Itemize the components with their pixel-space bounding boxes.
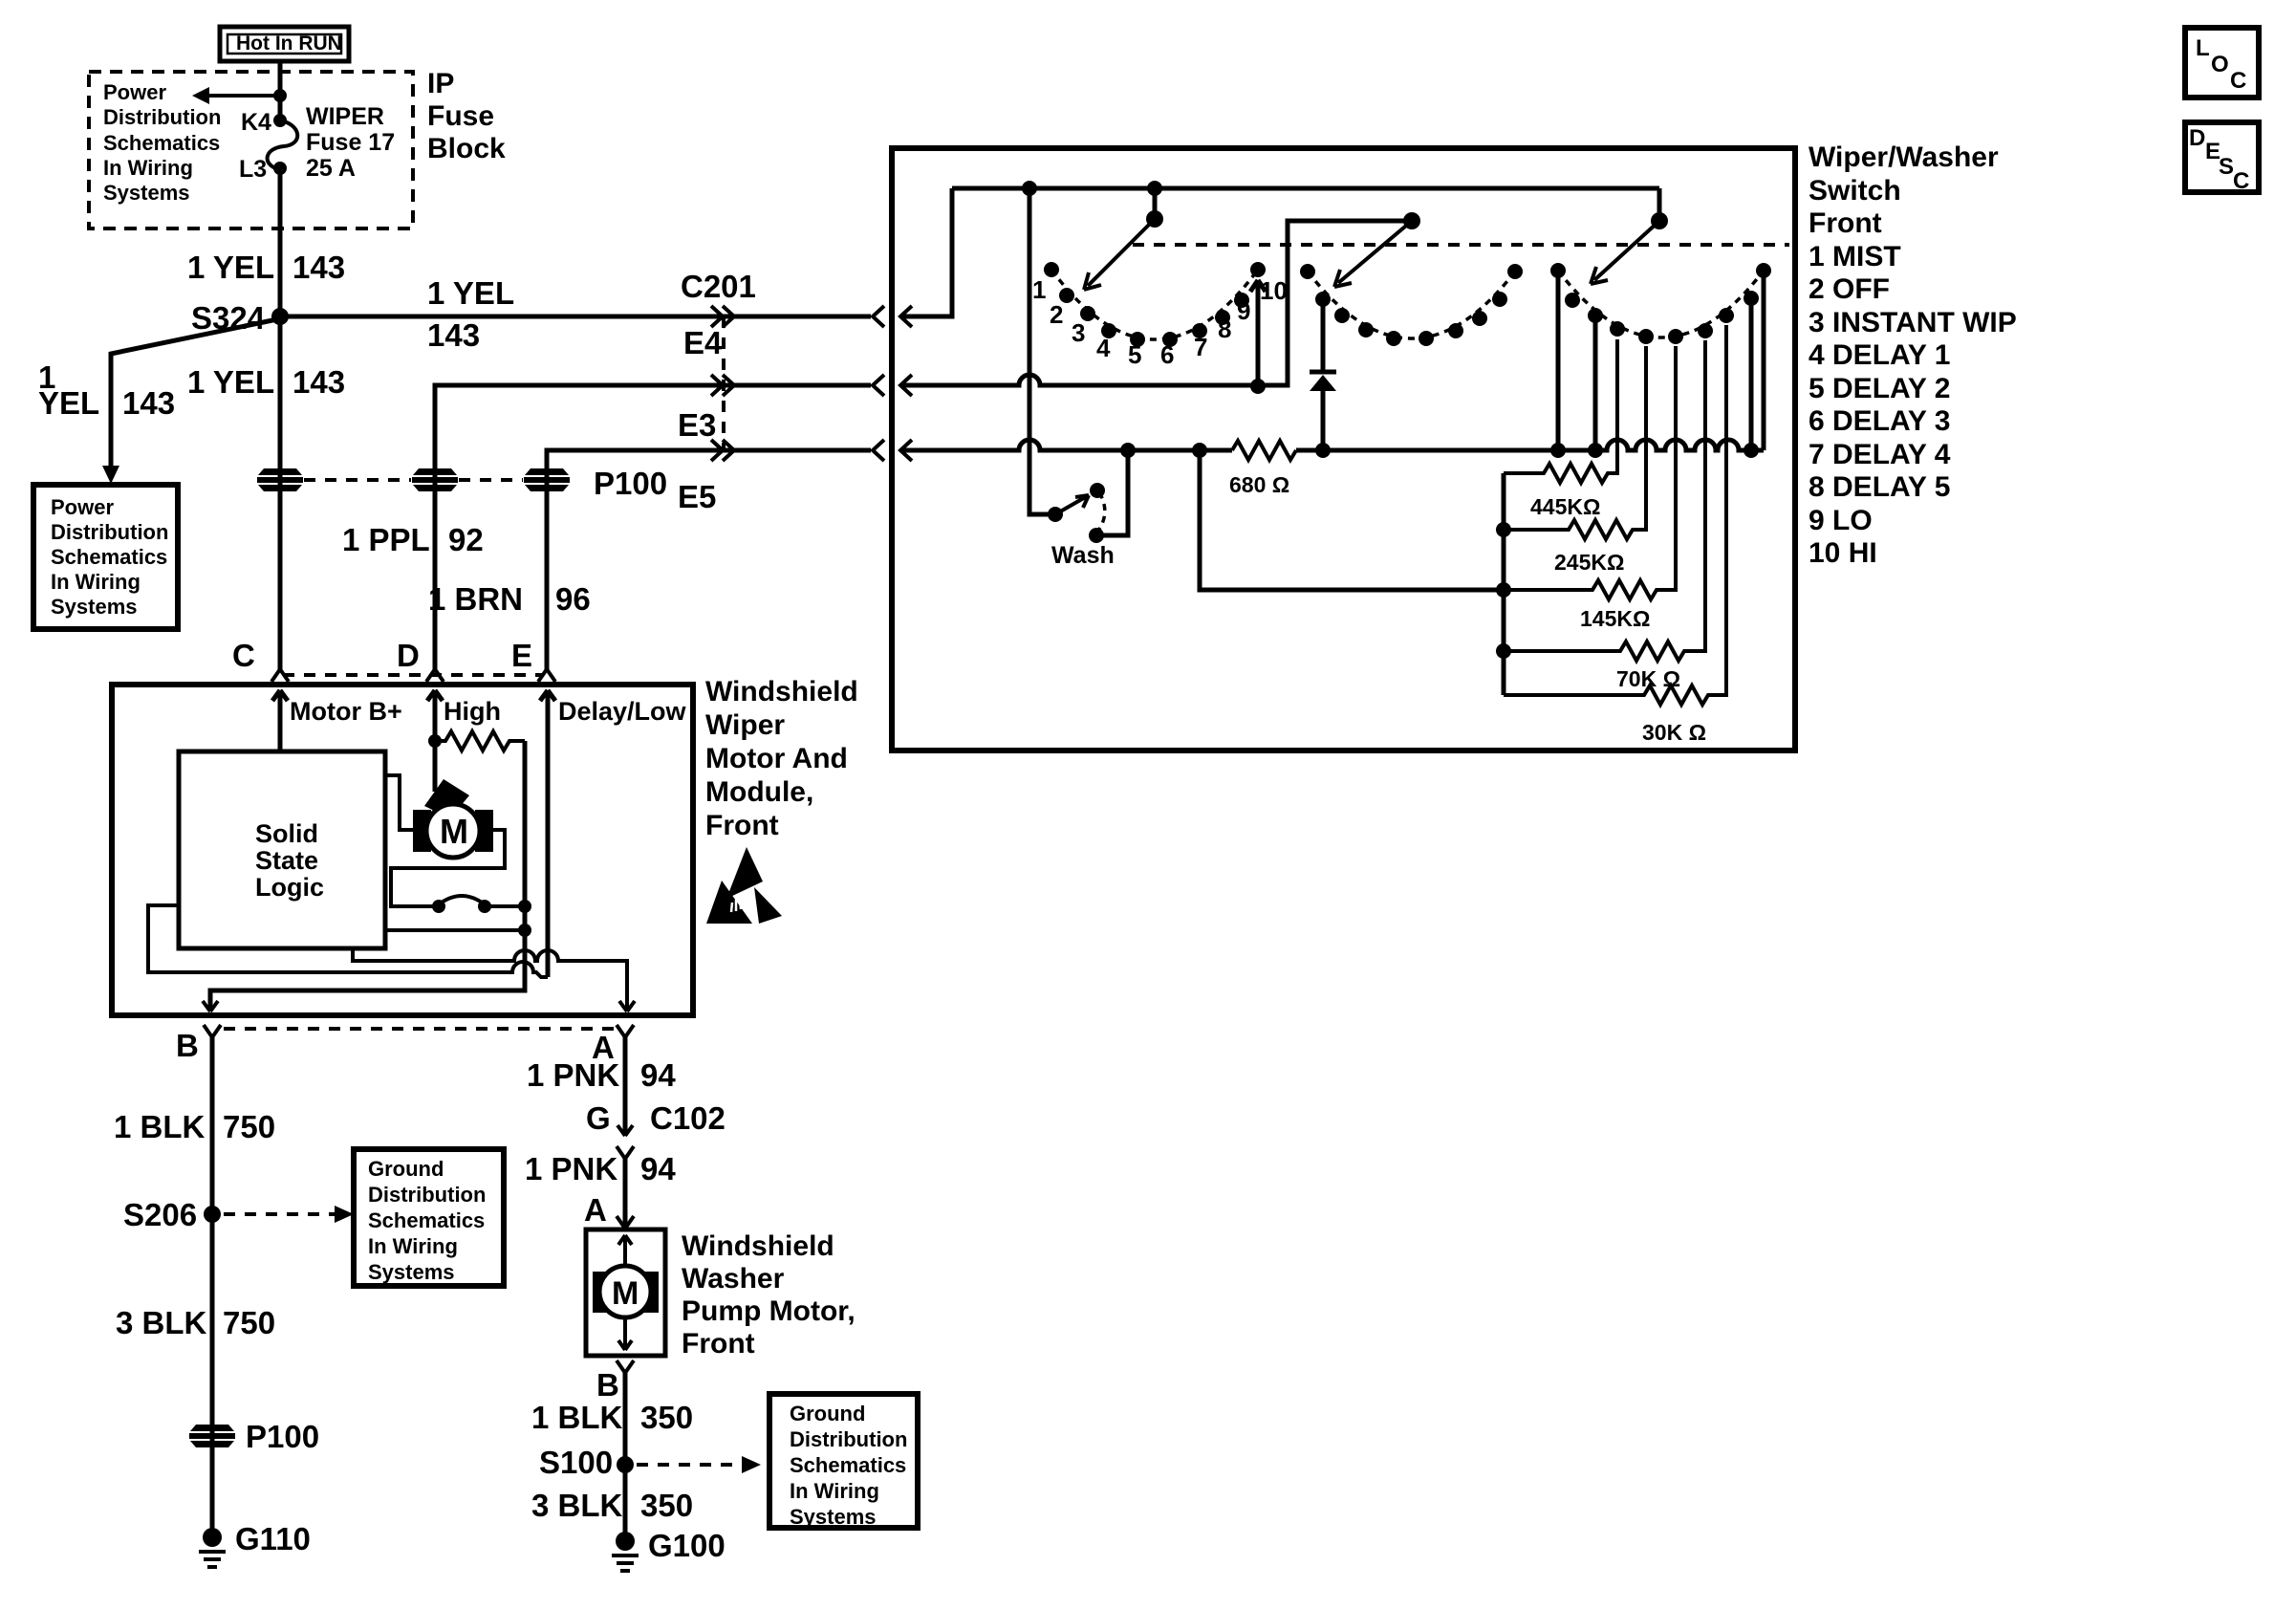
svg-text:145KΩ: 145KΩ <box>1580 606 1650 631</box>
svg-text:1 BRN: 1 BRN <box>428 581 523 617</box>
wire SSL left to Delay/Low return <box>148 905 548 977</box>
resistor (high speed dropping) <box>435 731 525 751</box>
wash feed vertical wire <box>1029 188 1055 514</box>
IP Fuse Block dashed box <box>89 72 413 228</box>
female connector pump B <box>617 1360 634 1373</box>
junction dot bus 70K <box>1496 643 1511 659</box>
svg-text:350: 350 <box>640 1400 693 1435</box>
svg-text:Solid: Solid <box>255 819 318 848</box>
ESD warning symbol <box>706 847 782 924</box>
svg-text:8 DELAY 5: 8 DELAY 5 <box>1809 471 1950 503</box>
Hot In RUN box <box>220 27 349 61</box>
dashed connector line C-D-E <box>283 673 544 677</box>
arc 1 contact numbers <box>1032 275 1288 369</box>
pin Motor B+ arrow <box>272 690 288 751</box>
Ground Distribution Schematics box (right) <box>769 1394 918 1529</box>
wire fuse L3 down to S324 <box>278 168 283 316</box>
wire ladder feed <box>1200 450 1504 590</box>
svg-text:A: A <box>584 1192 607 1228</box>
E3 row wire inside box <box>900 221 1412 385</box>
svg-text:E3: E3 <box>678 407 716 443</box>
wire pump B to S100 <box>623 1373 628 1465</box>
top bus wire <box>952 186 1659 191</box>
node S324 <box>271 308 289 325</box>
svg-text:Wiper: Wiper <box>705 709 785 741</box>
svg-text:Pump Motor,: Pump Motor, <box>682 1295 856 1327</box>
svg-text:7 DELAY 4: 7 DELAY 4 <box>1809 439 1951 470</box>
Power Distribution Schematics In Wiring Systems box <box>33 485 178 629</box>
svg-text:In Wiring: In Wiring <box>368 1234 458 1258</box>
svg-text:Ground: Ground <box>368 1157 444 1181</box>
female connector row E4 at switch box <box>873 306 912 327</box>
svg-text:Systems: Systems <box>51 595 138 619</box>
wire arc3 contact 9 to E5 bus <box>1749 298 1754 450</box>
svg-text:Distribution: Distribution <box>790 1427 907 1451</box>
svg-text:5 DELAY 2: 5 DELAY 2 <box>1809 373 1950 404</box>
wire D riser to connector row E3 <box>435 385 871 669</box>
svg-text:G: G <box>586 1100 611 1136</box>
svg-text:Systems: Systems <box>368 1260 455 1284</box>
svg-text:10 HI: 10 HI <box>1809 537 1877 569</box>
svg-text:E4: E4 <box>683 325 723 360</box>
dashed reference arrow S100 to ground distribution <box>637 1456 761 1473</box>
svg-text:C: C <box>2230 68 2246 94</box>
wire High down into motor flag <box>433 741 438 792</box>
svg-text:30K Ω: 30K Ω <box>1642 720 1706 745</box>
Ground Distribution Schematics box (left) <box>354 1149 504 1286</box>
svg-text:Power: Power <box>51 495 114 519</box>
wire C102 to washer pump <box>623 1159 628 1229</box>
svg-text:L3: L3 <box>239 156 267 183</box>
connector male arrows row E5 <box>711 440 734 461</box>
svg-text:Front: Front <box>705 810 779 841</box>
svg-text:1 YEL: 1 YEL <box>427 275 514 311</box>
junction dot at fuse feed <box>273 89 287 102</box>
pin High arrow <box>427 690 443 741</box>
connector C201 dashed boundary <box>722 316 726 450</box>
svg-text:Wiper/Washer: Wiper/Washer <box>1809 141 1999 173</box>
switch arm 2 (wash/delay arc) <box>1334 212 1420 287</box>
svg-text:1 YEL: 1 YEL <box>187 250 274 285</box>
svg-text:WIPER: WIPER <box>306 103 384 130</box>
svg-text:1 BLK: 1 BLK <box>531 1400 623 1435</box>
svg-text:C: C <box>2233 168 2249 194</box>
svg-text:2 OFF: 2 OFF <box>1809 273 1890 305</box>
wire S324 branch to power distribution (diagonal + down arrow) <box>102 319 277 484</box>
svg-text:D: D <box>2189 125 2205 151</box>
svg-text:25 A: 25 A <box>306 155 356 182</box>
svg-text:Switch: Switch <box>1809 175 1901 207</box>
svg-text:O: O <box>2211 52 2229 77</box>
label Windshield Washer Pump Motor, Front <box>682 1230 856 1360</box>
svg-text:S: S <box>2219 154 2234 180</box>
svg-text:High: High <box>444 697 501 726</box>
svg-text:680 Ω: 680 Ω <box>1229 472 1289 497</box>
svg-text:C102: C102 <box>650 1100 726 1136</box>
svg-text:750: 750 <box>223 1305 275 1340</box>
junction dot wash feed <box>1022 181 1037 196</box>
dashed travel line <box>1133 243 1789 247</box>
svg-text:94: 94 <box>640 1057 676 1093</box>
svg-text:1 BLK: 1 BLK <box>114 1109 206 1144</box>
svg-text:M: M <box>612 1275 639 1312</box>
svg-text:IP: IP <box>427 68 454 99</box>
grommet P100 on wire E <box>524 468 570 491</box>
resistor 30K <box>1504 325 1726 705</box>
resistor 245K <box>1504 346 1646 539</box>
svg-text:E5: E5 <box>678 479 716 514</box>
svg-text:Wash: Wash <box>1051 542 1115 569</box>
svg-text:Schematics: Schematics <box>103 131 220 155</box>
svg-text:92: 92 <box>448 522 484 557</box>
svg-text:3 INSTANT WIP: 3 INSTANT WIP <box>1809 307 2017 338</box>
junction dot bus 145K <box>1496 582 1511 598</box>
female pin connector C <box>271 669 289 682</box>
wire S324 to connector C201 row E4 <box>280 315 871 319</box>
wire battery feed riser (E4 row to top bus) <box>900 188 952 316</box>
arc 1 contacts (MIST selector) <box>1044 262 1266 347</box>
wire contact 10 to E3 row (arrow up) <box>1250 280 1266 394</box>
arrow to power distribution schematics <box>192 87 280 104</box>
dashed reference arrow S206 to ground distribution <box>224 1206 354 1223</box>
node S206 <box>204 1206 221 1223</box>
junction dot wiper arm 1 feed <box>1147 181 1162 196</box>
svg-text:Logic: Logic <box>255 873 324 902</box>
resistor 145K <box>1504 346 1676 599</box>
svg-text:3 BLK: 3 BLK <box>116 1305 207 1340</box>
svg-text:Fuse 17: Fuse 17 <box>306 129 395 156</box>
switch arm 1 (MIST arc) <box>1084 188 1163 290</box>
svg-text:143: 143 <box>292 250 345 285</box>
connector C102 (arrow and socket) <box>617 1125 634 1159</box>
wash switch <box>1048 450 1128 543</box>
female pin connector E <box>538 669 555 682</box>
svg-text:94: 94 <box>640 1151 676 1186</box>
svg-text:C: C <box>232 638 255 673</box>
svg-text:3 BLK: 3 BLK <box>531 1488 623 1523</box>
pin A arrow into box bottom <box>619 1001 635 1012</box>
junction dot High/resistor <box>428 734 442 748</box>
wire SSL right to column <box>385 928 525 932</box>
svg-text:Motor B+: Motor B+ <box>290 697 402 726</box>
resistor 70K <box>1504 340 1705 661</box>
dashed link between grommets <box>304 478 523 482</box>
svg-text:1 PNK: 1 PNK <box>525 1151 617 1186</box>
junction dot diode to E5 <box>1315 443 1331 458</box>
female connector row E3 at switch box <box>873 375 912 396</box>
svg-text:Windshield: Windshield <box>682 1230 834 1262</box>
wire motor right brush to park switch <box>391 830 505 906</box>
junction dot ladder feed <box>1192 443 1207 458</box>
svg-text:L: L <box>2196 35 2210 61</box>
wire B to S206 <box>210 1037 215 1214</box>
junction dot jumper to column <box>518 900 531 913</box>
Wiper/Washer Switch box <box>892 148 1795 751</box>
svg-text:Distribution: Distribution <box>368 1183 486 1207</box>
label Windshield Wiper Motor And Module, Front <box>705 676 858 841</box>
Windshield Wiper Motor And Module box <box>112 685 693 1015</box>
svg-text:Distribution: Distribution <box>103 105 221 129</box>
Solid State Logic box <box>179 751 385 948</box>
svg-text:1 YEL: 1 YEL <box>187 364 274 400</box>
svg-text:445KΩ: 445KΩ <box>1530 494 1600 519</box>
dashed connector line B-A <box>224 1027 621 1031</box>
svg-text:Block: Block <box>427 133 506 164</box>
svg-text:In Wiring: In Wiring <box>51 570 141 594</box>
grommet P100 (ground lead) <box>189 1425 235 1447</box>
svg-text:7: 7 <box>1194 333 1207 361</box>
female connector pump A <box>617 1216 634 1229</box>
ladder bus vertical <box>1502 473 1506 695</box>
wire arc3 contact 3 to E5 bus <box>1593 315 1598 450</box>
svg-text:M: M <box>440 812 468 851</box>
wire S100 to G100 <box>623 1465 628 1536</box>
wire arc3 contact 1 to E5 bus <box>1556 271 1561 450</box>
svg-text:1 MIST: 1 MIST <box>1809 241 1901 272</box>
E5 row wire inside box (delay bus, right) <box>1296 440 1764 450</box>
svg-text:G100: G100 <box>648 1528 726 1563</box>
grommet P100 on wire C <box>257 468 303 491</box>
wire SSL to motor left brush <box>385 775 413 830</box>
arc 2 contacts <box>1300 264 1523 346</box>
svg-text:G110: G110 <box>235 1521 311 1556</box>
switch arm 3 (delay arc) <box>1591 188 1668 284</box>
svg-text:Schematics: Schematics <box>790 1453 906 1477</box>
svg-text:Delay/Low: Delay/Low <box>558 697 687 726</box>
svg-text:In Wiring: In Wiring <box>103 156 193 180</box>
junction dot SSL wire to column <box>518 924 531 937</box>
svg-text:Hot In RUN: Hot In RUN <box>236 33 342 54</box>
ground G100 <box>612 1532 639 1571</box>
svg-text:5: 5 <box>1128 340 1141 369</box>
svg-text:State: State <box>255 846 318 875</box>
wire arc3 contact 10 to E5 bus <box>1762 271 1766 450</box>
junction dot bus 245K <box>1496 522 1511 537</box>
junction dot wash return <box>1120 443 1136 458</box>
svg-text:P100: P100 <box>246 1419 319 1454</box>
DESC reference box <box>2185 122 2259 194</box>
svg-text:143: 143 <box>122 385 175 421</box>
svg-text:Ground: Ground <box>790 1402 865 1425</box>
svg-text:6 DELAY 3: 6 DELAY 3 <box>1809 405 1950 437</box>
text Power Distribution Schematics In Wiring (fuse block note) <box>103 80 221 205</box>
svg-text:4 DELAY 1: 4 DELAY 1 <box>1809 339 1950 371</box>
svg-text:8: 8 <box>1218 315 1231 343</box>
diode (wash signal) <box>1310 299 1336 450</box>
svg-text:6: 6 <box>1160 340 1174 369</box>
svg-text:Front: Front <box>1809 207 1882 239</box>
svg-text:1: 1 <box>1032 275 1046 304</box>
grommet P100 on wire D <box>412 468 458 491</box>
svg-text:C201: C201 <box>681 269 756 304</box>
svg-text:D: D <box>397 638 420 673</box>
svg-text:143: 143 <box>292 364 345 400</box>
svg-text:3: 3 <box>1072 318 1085 347</box>
svg-text:Schematics: Schematics <box>368 1208 485 1232</box>
wire: Hot In RUN feed down into fuse block <box>278 61 283 117</box>
connector C201 male arrows row E4 <box>711 306 734 327</box>
wire C from S324 down to pin C <box>278 316 283 669</box>
wire E riser to connector row E5 <box>547 450 871 669</box>
svg-text:1 PPL: 1 PPL <box>342 522 430 557</box>
wiper motor M <box>413 779 493 858</box>
label Wiper/Washer Switch Front with positions <box>1809 141 2017 569</box>
svg-text:Fuse: Fuse <box>427 100 494 132</box>
resistor 445K <box>1504 339 1617 483</box>
svg-text:Power: Power <box>103 80 166 104</box>
svg-text:P100: P100 <box>594 466 667 501</box>
ground G110 <box>199 1528 226 1567</box>
arc 3 contacts <box>1550 263 1771 344</box>
svg-text:E: E <box>511 638 532 673</box>
wire resistor to jumper column <box>210 741 525 1012</box>
svg-text:96: 96 <box>555 581 591 617</box>
Windshield Washer Pump Motor box <box>586 1229 665 1356</box>
fuse F17 WIPER 25A (element with K4/L3 terminals) <box>239 103 395 183</box>
svg-text:YEL: YEL <box>38 385 99 421</box>
wire A to connector C102 <box>623 1037 628 1136</box>
svg-text:Schematics: Schematics <box>51 545 167 569</box>
svg-text:S206: S206 <box>123 1197 197 1232</box>
svg-text:Motor And: Motor And <box>705 743 848 774</box>
female pin connector D <box>426 669 444 682</box>
svg-text:S100: S100 <box>539 1445 613 1480</box>
female connector row E5 at switch box <box>873 440 912 461</box>
svg-text:4: 4 <box>1096 334 1111 362</box>
svg-text:K4: K4 <box>241 109 271 136</box>
pin B arrow into box bottom <box>203 1001 218 1012</box>
park switch (jumper contacts) <box>432 896 525 913</box>
E5 row wire inside box (delay bus, left) <box>900 440 1232 450</box>
node S100 <box>617 1456 634 1473</box>
resistor 680 ohm <box>1232 441 1296 460</box>
svg-text:Windshield: Windshield <box>705 676 858 707</box>
svg-text:350: 350 <box>640 1488 693 1523</box>
svg-text:Systems: Systems <box>103 181 190 205</box>
svg-text:Distribution: Distribution <box>51 520 168 544</box>
svg-text:9: 9 <box>1237 296 1250 325</box>
svg-text:Systems: Systems <box>790 1505 877 1529</box>
wire SSL bottom to pin A (washer drive) <box>353 948 627 1012</box>
svg-text:B: B <box>176 1028 199 1063</box>
wire S206 to G110 <box>210 1214 215 1533</box>
svg-text:143: 143 <box>427 317 480 353</box>
svg-text:2: 2 <box>1050 300 1063 329</box>
LOC reference box <box>2185 28 2259 98</box>
svg-text:Front: Front <box>682 1328 755 1360</box>
svg-text:1 PNK: 1 PNK <box>527 1057 619 1093</box>
female connector pin B <box>204 1025 221 1037</box>
connector male arrows row E3 <box>711 375 734 396</box>
svg-text:750: 750 <box>223 1109 275 1144</box>
svg-text:9 LO: 9 LO <box>1809 505 1873 536</box>
svg-text:Washer: Washer <box>682 1263 785 1295</box>
svg-text:In Wiring: In Wiring <box>790 1479 879 1503</box>
svg-text:Module,: Module, <box>705 776 813 808</box>
svg-text:245KΩ: 245KΩ <box>1554 550 1624 575</box>
svg-text:B: B <box>596 1367 619 1403</box>
pin Delay/Low arrow <box>540 690 555 977</box>
female connector pin A <box>617 1025 634 1037</box>
